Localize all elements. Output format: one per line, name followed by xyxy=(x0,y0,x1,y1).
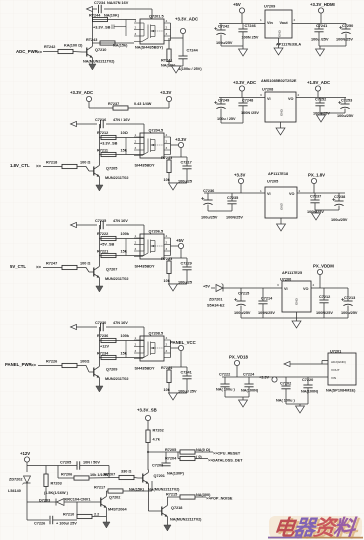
ground under output xyxy=(168,173,170,184)
svg-text:C7236: C7236 xyxy=(203,189,214,193)
resistor R7210 2.2k xyxy=(76,502,78,517)
capacitor C7224 NA(100N) xyxy=(248,377,250,384)
capacitor C7225 47N 16V xyxy=(101,221,104,229)
capacitor C7242 100u/25V xyxy=(220,24,222,31)
wire bottom rail xyxy=(27,519,49,521)
svg-text:+5V: +5V xyxy=(203,285,210,289)
svg-text:Vin: Vin xyxy=(267,21,274,25)
capacitor C7235 100N/25V xyxy=(231,193,233,201)
svg-text:VOUT: VOUT xyxy=(331,368,340,372)
svg-text:+3.3V: +3.3V xyxy=(160,90,171,95)
svg-text:C7235: C7235 xyxy=(227,196,238,200)
resistor R7213 xyxy=(168,157,170,160)
svg-text:PX_1.8V: PX_1.8V xyxy=(308,173,325,178)
wire output drop xyxy=(180,249,182,258)
svg-text:C7222: C7222 xyxy=(219,373,230,377)
wire top line xyxy=(76,224,97,226)
svg-text:Q7206.5: Q7206.5 xyxy=(149,230,164,234)
ground under U7205 xyxy=(280,218,282,224)
capacitor C7215 100u/25V xyxy=(240,288,242,301)
svg-text:C7248: C7248 xyxy=(242,99,253,103)
svg-text:2: 2 xyxy=(299,189,301,193)
resistor R7221 xyxy=(99,255,144,257)
svg-text:VO: VO xyxy=(303,287,309,291)
svg-text:SI4435BDY: SI4435BDY xyxy=(135,367,156,371)
capacitor C7248 100N/25V xyxy=(242,98,244,104)
wire input rail xyxy=(223,287,282,289)
svg-text:+3.3V_SB: +3.3V_SB xyxy=(93,26,111,30)
svg-text:C7234: C7234 xyxy=(94,1,106,5)
svg-text:C7244: C7244 xyxy=(187,49,199,53)
svg-text:NA(MUN2211T02): NA(MUN2211T02) xyxy=(148,488,180,492)
wire collector spine xyxy=(91,9,93,44)
svg-text:+ 100u/ 25V: + 100u/ 25V xyxy=(56,522,77,526)
svg-text:+3.3V: +3.3V xyxy=(175,137,186,142)
svg-text:100N/25V: 100N/25V xyxy=(316,311,333,315)
wire to R7205 xyxy=(148,451,180,453)
wire RT242 to Q7210 base xyxy=(73,51,82,54)
wire output rail xyxy=(311,287,348,289)
resistor RT244 NA(10K) xyxy=(92,19,136,21)
svg-text:R7215: R7215 xyxy=(166,493,177,497)
svg-text:>>: >> xyxy=(31,363,37,368)
svg-text:100u/25V: 100u/25V xyxy=(341,311,358,315)
svg-text:2: 2 xyxy=(298,93,300,97)
svg-text:C7241: C7241 xyxy=(316,24,327,28)
svg-text:RT242: RT242 xyxy=(44,45,55,49)
wire mid row xyxy=(27,501,56,503)
svg-text:R7234: R7234 xyxy=(97,352,109,356)
svg-text:KA(100 Ω): KA(100 Ω) xyxy=(64,44,83,48)
svg-text:NA(100N): NA(100N) xyxy=(301,390,319,394)
svg-text:NA(100N): NA(100N) xyxy=(241,389,259,393)
wire rail A xyxy=(27,465,77,467)
svg-text:S5A34-E2: S5A34-E2 xyxy=(207,304,225,308)
svg-text:KRC104-CNV1: KRC104-CNV1 xyxy=(65,498,91,502)
svg-text:+3.3V_SB: +3.3V_SB xyxy=(137,408,157,413)
resistor R7222 xyxy=(99,238,144,240)
svg-text:15k: 15k xyxy=(121,250,128,254)
svg-text:1: 1 xyxy=(260,189,262,193)
capacitor C7246 100N 25V xyxy=(242,24,244,30)
wire input rail xyxy=(219,97,265,99)
svg-text:MUN2211T02: MUN2211T02 xyxy=(105,377,128,381)
svg-text:AP1117E33LA: AP1117E33LA xyxy=(276,43,301,47)
capacitor C7202 NA(100u) xyxy=(285,377,287,386)
svg-text:VI: VI xyxy=(267,97,271,101)
svg-text:+12V: +12V xyxy=(100,345,109,349)
svg-text:C7238: C7238 xyxy=(334,195,345,199)
svg-text:C7224: C7224 xyxy=(243,373,255,377)
svg-text:100N /25V: 100N /25V xyxy=(241,111,259,115)
svg-text:R7247: R7247 xyxy=(46,262,57,266)
svg-text:VI: VI xyxy=(267,192,271,196)
svg-text:U7209: U7209 xyxy=(264,5,275,9)
off-page arrow xyxy=(71,121,77,126)
wire to base xyxy=(77,366,89,373)
svg-text:R7211: R7211 xyxy=(97,149,108,153)
capacitor C7241 xyxy=(186,367,188,376)
svg-text:R7236: R7236 xyxy=(97,334,108,338)
svg-text:+5V: +5V xyxy=(176,238,184,243)
transistor Q7205 MUN2211T02 xyxy=(89,163,100,180)
svg-text:C7212: C7212 xyxy=(319,295,330,299)
wire mosfet drain merge xyxy=(170,23,172,41)
svg-text:C7214: C7214 xyxy=(261,297,273,301)
svg-text:5V_CTL: 5V_CTL xyxy=(10,264,26,269)
svg-text:PX_VDDM: PX_VDDM xyxy=(313,264,334,269)
svg-text:MUN2211T02: MUN2211T02 xyxy=(105,176,128,180)
transistor Q7209 MUN2211T02 xyxy=(89,364,100,381)
wire drain merge xyxy=(170,137,172,155)
svg-text:+3.3V_ADC: +3.3V_ADC xyxy=(70,90,93,95)
svg-text:C7217: C7217 xyxy=(181,161,192,165)
ground under output caps xyxy=(318,32,320,46)
svg-text:+3.3V_SB: +3.3V_SB xyxy=(100,142,118,146)
svg-text:VI: VI xyxy=(284,287,288,291)
ground under Q7205 xyxy=(98,180,100,186)
svg-text:NA(MUN2211T02): NA(MUN2211T02) xyxy=(83,60,115,64)
svg-text:10k 1/10W: 10k 1/10W xyxy=(90,473,109,477)
svg-text:PX_VD18: PX_VD18 xyxy=(229,355,248,360)
capacitor C7234 NA/47N 16V xyxy=(99,5,102,13)
wire top line xyxy=(92,8,97,10)
svg-text:3: 3 xyxy=(260,93,262,97)
capacitor C7214 100N/25V xyxy=(262,288,264,301)
svg-text:+1.8V_ADC: +1.8V_ADC xyxy=(307,80,330,85)
svg-text:AMS1085B02T2S2E: AMS1085B02T2S2E xyxy=(261,79,297,83)
capacitor C7249 100u/25V xyxy=(220,98,222,105)
svg-text:+3.3V_HDMI: +3.3V_HDMI xyxy=(310,2,335,7)
svg-text:R7213: R7213 xyxy=(161,156,172,160)
wire cap to gate column xyxy=(106,224,144,226)
svg-text:NA(0 Ω): NA(0 Ω) xyxy=(196,448,211,452)
ground under Q7218 xyxy=(166,520,168,526)
watermark background smear xyxy=(269,516,362,538)
svg-text:R7217: R7217 xyxy=(94,486,105,490)
svg-text:NA(15k): NA(15k) xyxy=(113,44,128,48)
svg-text:R7223: R7223 xyxy=(161,257,172,261)
wire input rail xyxy=(204,192,265,194)
svg-text:100N/25V: 100N/25V xyxy=(336,38,353,42)
resistor R7237 0.43 1/4W xyxy=(89,107,113,109)
ground under C7202/C7220 xyxy=(285,389,287,404)
wire output rail xyxy=(292,23,346,25)
capacitor C7238 100u/25V xyxy=(338,193,340,201)
mosfet Q7204.5 SI4435BDY xyxy=(134,133,171,158)
svg-text:C7253: C7253 xyxy=(341,99,352,103)
capacitor C7230 47N 16V xyxy=(101,323,104,331)
svg-text:PANEL_VCC: PANEL_VCC xyxy=(170,340,196,345)
svg-text:NA(130P): NA(130P) xyxy=(167,472,185,476)
svg-text:R7224: R7224 xyxy=(161,366,173,370)
capacitor C7213 100u/25V xyxy=(347,288,349,301)
svg-text:Q7201.5: Q7201.5 xyxy=(149,15,164,19)
svg-text:C7225: C7225 xyxy=(95,219,106,223)
ground under output caps xyxy=(314,203,316,210)
svg-text:330 Ω: 330 Ω xyxy=(121,470,131,474)
svg-text:Q7205: Q7205 xyxy=(106,167,117,171)
svg-text:C7241: C7241 xyxy=(181,371,192,375)
ground under Q7209 xyxy=(98,381,100,387)
resistor R7227 xyxy=(43,267,62,269)
svg-text:100N 25V: 100N 25V xyxy=(242,36,259,40)
mosfet Q7201 NA(SI4435BDY) xyxy=(134,19,171,44)
wire output rail xyxy=(297,192,345,194)
svg-text:U7205: U7205 xyxy=(267,180,278,184)
capacitor C7220 NA(100N) xyxy=(307,377,309,385)
svg-text:Q7207: Q7207 xyxy=(106,268,117,272)
transistor Q7218 NA(MUN2211T02) xyxy=(157,503,168,520)
capacitor C7236 100u/25V xyxy=(207,193,209,200)
svg-text:3: 3 xyxy=(277,283,279,287)
svg-text:ADJ(GND): ADJ(GND) xyxy=(331,360,346,364)
svg-text:15k: 15k xyxy=(121,352,128,356)
svg-text:RT244: RT244 xyxy=(89,14,101,18)
svg-text:NA(SI4435BDY): NA(SI4435BDY) xyxy=(135,46,164,50)
resistor R7203 1.5K 1/16W xyxy=(45,466,47,475)
svg-text:C7246: C7246 xyxy=(245,24,256,28)
svg-text:+3.3V: +3.3V xyxy=(259,376,269,380)
svg-text:>>: >> xyxy=(36,265,42,270)
wire Q7201 emitter to Q7218 base xyxy=(147,487,149,512)
off-page arrow xyxy=(71,222,77,227)
svg-text:>>: >> xyxy=(36,164,42,169)
svg-text:R7226: R7226 xyxy=(46,360,57,364)
svg-text:+12V: +12V xyxy=(20,451,30,456)
zener ZD7201 S5A34-E2 xyxy=(216,285,223,292)
svg-text:VO: VO xyxy=(288,97,294,101)
resistor R7234 xyxy=(99,357,144,359)
ground under C7222/C7224 xyxy=(224,387,226,397)
svg-text:C7252: C7252 xyxy=(315,98,326,102)
svg-text:C7213: C7213 xyxy=(344,296,355,300)
svg-text:C7230: C7230 xyxy=(95,321,106,325)
ground under Q7207 xyxy=(98,281,100,287)
capacitor C7241 100N/25V xyxy=(318,24,320,30)
transistor Q7202 M4ST2064 xyxy=(96,494,107,511)
wire to base xyxy=(77,268,89,273)
resistor R7206 10k 1/10W xyxy=(57,466,59,479)
svg-text:VO: VO xyxy=(289,192,295,196)
svg-text:NA( 100u ): NA( 100u ) xyxy=(216,388,236,392)
ground under input caps xyxy=(220,109,222,123)
wire top line xyxy=(76,326,97,328)
svg-text:+3.3V_ADC: +3.3V_ADC xyxy=(175,17,198,22)
svg-text:NA/47N 16V: NA/47N 16V xyxy=(107,1,129,5)
ground under output xyxy=(168,274,170,285)
transistor Q7210 NA(MUN2211T02) xyxy=(82,44,93,61)
svg-text:100Ω: 100Ω xyxy=(80,360,89,364)
svg-text:C7237: C7237 xyxy=(310,195,321,199)
transistor Q7201 NA(MUN2211T02) xyxy=(138,470,149,487)
svg-text:4.7k: 4.7k xyxy=(153,438,161,442)
capacitor C7208 NA(130P) xyxy=(165,452,167,463)
wire Q7202 collector to R7217 xyxy=(105,491,107,494)
svg-text:R7202: R7202 xyxy=(153,429,164,433)
wire cap to gate column xyxy=(106,326,144,328)
wire output drop xyxy=(180,148,182,157)
svg-text:R7218: R7218 xyxy=(46,161,57,165)
zener ZD7202 L54140 xyxy=(24,476,31,483)
resistor R7211 xyxy=(99,154,144,156)
svg-text:NA(MUN2211T02): NA(MUN2211T02) xyxy=(170,518,202,522)
wire drain merge xyxy=(170,238,172,256)
ground under Q7202 xyxy=(105,511,107,523)
svg-text:2: 2 xyxy=(294,18,296,22)
svg-text:C7220: C7220 xyxy=(302,378,313,382)
transistor Q7207 MUN2211T02 xyxy=(89,264,100,281)
svg-text:47N 16V: 47N 16V xyxy=(113,219,128,223)
svg-text:>>POP_NOISE: >>POP_NOISE xyxy=(206,497,233,501)
wire output drop xyxy=(180,351,182,367)
wire to base xyxy=(77,167,89,172)
resistor R7224 xyxy=(168,367,170,370)
svg-text:100k: 100k xyxy=(121,334,130,338)
svg-text:Vout: Vout xyxy=(280,21,289,25)
wire cap to mosfet column xyxy=(104,8,152,10)
watermark underline xyxy=(268,537,363,539)
resistor RT241 NA(10k) xyxy=(168,38,170,49)
wire cap to gate column xyxy=(106,123,144,125)
svg-text:R7206: R7206 xyxy=(61,473,72,477)
diode D7203 KRC104-CNV1 xyxy=(57,499,65,506)
ground bus row4 xyxy=(240,306,242,318)
capacitor C7244 NA(100u/25V) xyxy=(178,56,187,59)
svg-text:100u / 25V: 100u / 25V xyxy=(217,117,236,121)
capacitor C7205 10N/50V xyxy=(77,461,80,469)
svg-text:1.8V_CTL: 1.8V_CTL xyxy=(10,163,30,168)
svg-text:AP1117E18: AP1117E18 xyxy=(268,172,288,176)
wire output rail xyxy=(296,97,346,99)
off-page arrow top of block1 xyxy=(87,6,93,11)
svg-text:R7204: R7204 xyxy=(165,457,177,461)
svg-text:U7208: U7208 xyxy=(262,88,273,92)
wire drop to mosfet top xyxy=(151,9,153,19)
resistor R7223 xyxy=(168,258,170,261)
svg-text:GND: GND xyxy=(280,202,284,210)
svg-text:SI4435BDY: SI4435BDY xyxy=(135,164,156,168)
svg-text:R7222: R7222 xyxy=(97,232,108,236)
svg-text:C7250: C7250 xyxy=(342,24,353,28)
capacitor C7212 100N/25V xyxy=(323,288,325,300)
svg-text:+3.3V: +3.3V xyxy=(234,173,245,178)
svg-text:C7208: C7208 xyxy=(152,464,163,468)
svg-text:100u /25V: 100u /25V xyxy=(311,38,329,42)
svg-text:C7202: C7202 xyxy=(280,382,291,386)
svg-text:100N/25V: 100N/25V xyxy=(258,311,275,315)
wire VIN rail xyxy=(222,376,328,378)
svg-text:Q7204.5: Q7204.5 xyxy=(149,129,164,133)
capacitor C7216 47N / 16V xyxy=(101,120,104,128)
svg-text:2.2: 2.2 xyxy=(94,513,99,517)
svg-text:10k: 10k xyxy=(164,279,171,283)
wire ADC_PWR to RT242 xyxy=(43,51,58,53)
svg-text:AP1117E25: AP1117E25 xyxy=(282,271,302,275)
svg-text:R7210: R7210 xyxy=(63,513,74,517)
svg-text:100u/25V: 100u/25V xyxy=(337,114,354,118)
svg-text:SI4435BDY: SI4435BDY xyxy=(135,265,156,269)
capacitor C7217 xyxy=(186,157,188,166)
svg-text:15k: 15k xyxy=(121,149,128,153)
svg-text:Q7210: Q7210 xyxy=(95,48,106,52)
capacitor C7229 xyxy=(186,258,188,267)
svg-text:100k: 100k xyxy=(121,232,130,236)
resistor R7236 xyxy=(99,340,144,342)
svg-text:Q7209: Q7209 xyxy=(106,368,117,372)
wire collector spine xyxy=(98,327,100,364)
wire input rail xyxy=(219,23,265,25)
wire collector spine xyxy=(98,225,100,264)
svg-text:100 Ω: 100 Ω xyxy=(80,262,90,266)
resistor RT243 NA(15k) xyxy=(92,42,134,44)
capacitor C7250 100N/25V xyxy=(345,24,347,30)
mosfet Q7208.5 SI4435BDY xyxy=(134,336,171,361)
svg-text:10N / 50V: 10N / 50V xyxy=(83,461,100,465)
svg-text:ZD7202: ZD7202 xyxy=(9,478,23,482)
svg-text:NA(SP1084M1E): NA(SP1084M1E) xyxy=(326,389,356,393)
svg-text:2: 2 xyxy=(313,283,315,287)
wire VOUT to left with arrow xyxy=(284,363,328,365)
svg-text:C7216: C7216 xyxy=(95,118,106,122)
wire to R7204 xyxy=(177,452,179,459)
svg-text:Q7218: Q7218 xyxy=(171,506,182,510)
wire collector spine xyxy=(98,124,100,163)
mosfet Q7206.5 SI4435BDY xyxy=(134,234,171,259)
svg-text:Q7208.5: Q7208.5 xyxy=(149,332,164,336)
capacitor C7252 100N/25V xyxy=(319,98,321,104)
svg-text:D7203: D7203 xyxy=(39,499,50,503)
ground under output caps xyxy=(319,106,321,113)
svg-text:M4ST2064: M4ST2064 xyxy=(108,508,127,512)
svg-text:C7242: C7242 xyxy=(218,25,229,29)
svg-text:R7203: R7203 xyxy=(51,482,62,486)
svg-text:47N / 16V: 47N / 16V xyxy=(113,118,130,122)
capacitor C7253 100u/25V xyxy=(344,98,346,105)
svg-text:ZD7201: ZD7201 xyxy=(209,298,223,302)
svg-text:Q7202: Q7202 xyxy=(109,496,120,500)
svg-text:RT243: RT243 xyxy=(86,38,97,42)
svg-text:C7205: C7205 xyxy=(60,461,71,465)
svg-text:C7226: C7226 xyxy=(34,522,45,526)
svg-text:100u/25V: 100u/25V xyxy=(201,216,218,220)
capacitor C7226 100u/25V xyxy=(50,516,53,524)
svg-text:>>CPU_RESET: >>CPU_RESET xyxy=(213,452,241,456)
svg-text:PANEL_PWR: PANEL_PWR xyxy=(5,362,33,367)
ground under Q7210 xyxy=(91,61,93,65)
svg-text:100 Ω: 100 Ω xyxy=(80,161,90,165)
capacitor C7237 100N/25V xyxy=(314,193,316,200)
svg-text:R7212: R7212 xyxy=(97,131,108,135)
junction node xyxy=(147,451,149,453)
svg-text:0.43 1/4W: 0.43 1/4W xyxy=(134,102,152,106)
svg-text:RT241: RT241 xyxy=(161,59,172,63)
svg-text:100u/25V: 100u/25V xyxy=(216,41,233,45)
svg-text:C7215: C7215 xyxy=(238,292,249,296)
ground under U7209 xyxy=(278,38,280,48)
svg-text:R7237: R7237 xyxy=(108,102,119,106)
svg-text:+3.3V_ADC: +3.3V_ADC xyxy=(233,80,256,85)
svg-text:+5V: +5V xyxy=(233,2,241,7)
svg-text:100N/25V: 100N/25V xyxy=(226,216,243,220)
svg-text:R7221: R7221 xyxy=(97,250,108,254)
wire top line xyxy=(76,123,97,125)
svg-text:10k: 10k xyxy=(164,178,171,182)
watermark text xyxy=(272,515,361,540)
ground under input caps xyxy=(220,35,222,46)
ground under U7208 xyxy=(280,122,282,128)
svg-text:1: 1 xyxy=(260,18,262,22)
